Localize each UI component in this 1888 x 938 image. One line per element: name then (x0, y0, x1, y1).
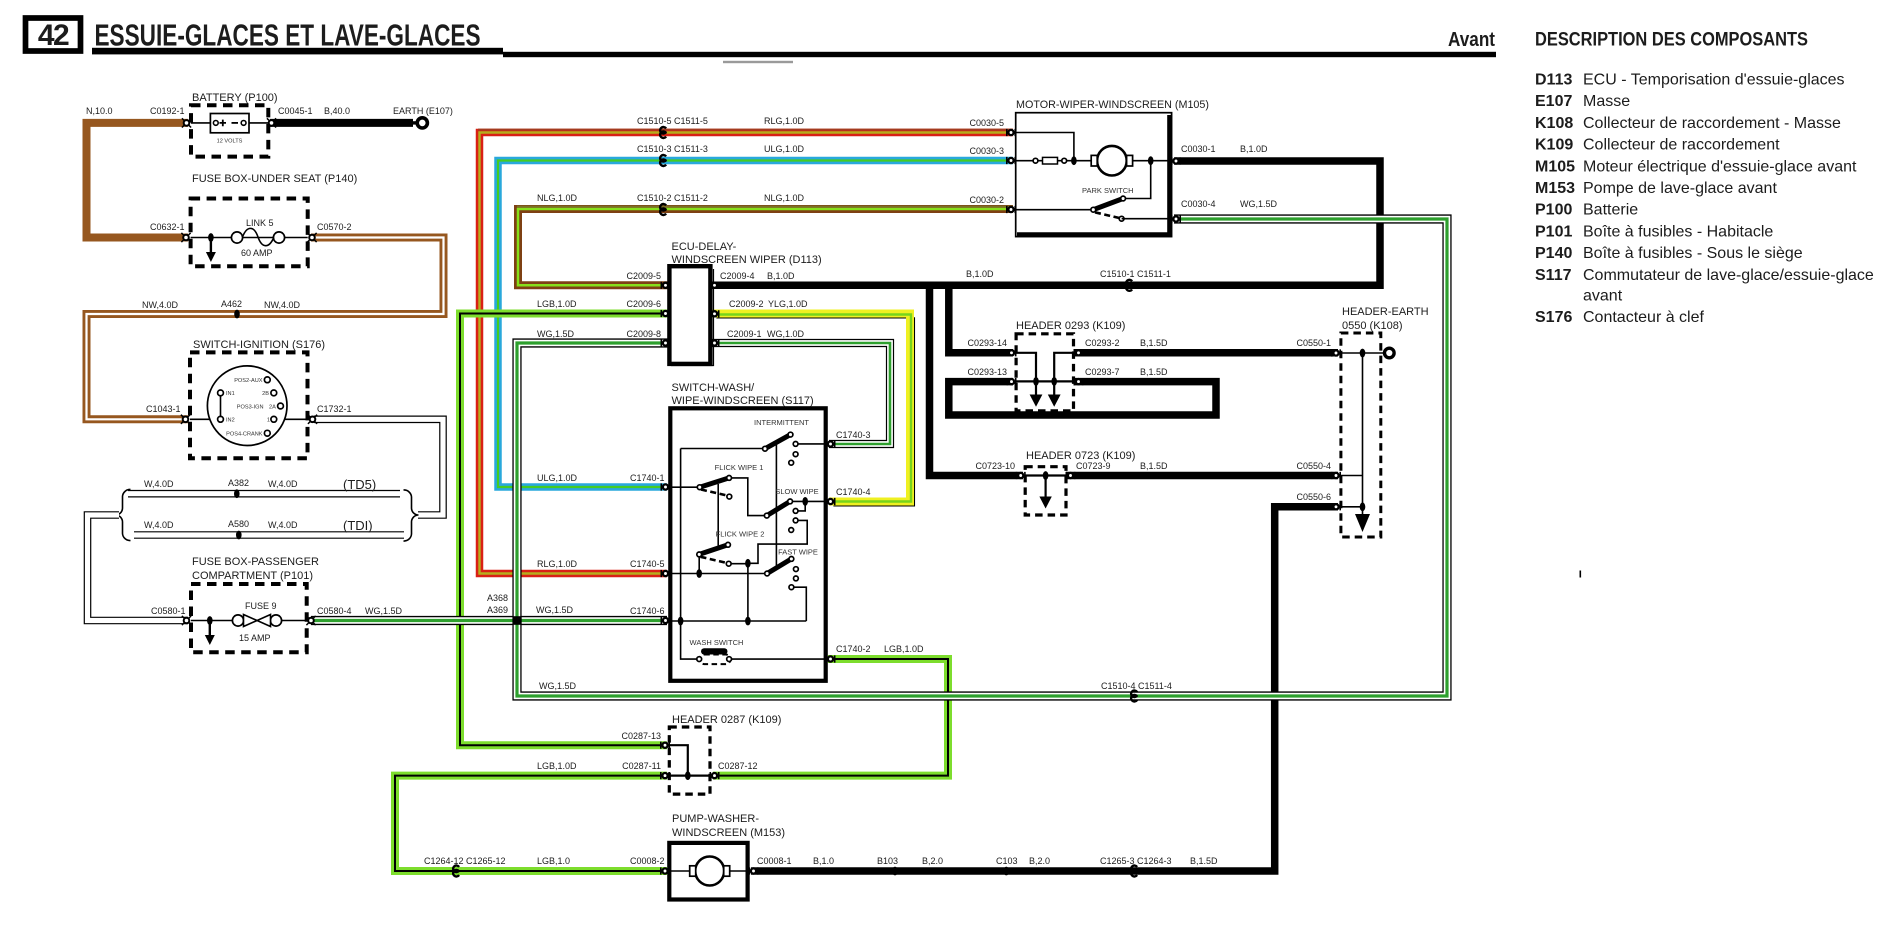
wire B,40.0 battery to earth (270, 119, 413, 127)
svg-text:P100: P100 (1535, 202, 1572, 219)
pin C2009-8 (661, 339, 669, 346)
svg-text:DESCRIPTION DES COMPOSANTS: DESCRIPTION DES COMPOSANTS (1535, 29, 1808, 51)
registration mark (1580, 571, 1582, 578)
pin C0293-2 (1074, 349, 1082, 356)
battery internal wire (191, 122, 270, 124)
svg-text:C1264-12 C1265-12: C1264-12 C1265-12 (424, 856, 506, 866)
svg-text:M105: M105 (1535, 158, 1575, 175)
svg-text:NW,4.0D: NW,4.0D (142, 300, 179, 310)
svg-text:avant: avant (1583, 288, 1623, 305)
intermittent switch lever (765, 435, 791, 449)
K108 big ground arrow (1355, 514, 1370, 532)
junction C103 (1004, 867, 1010, 876)
wire B branch to header 0723 (930, 285, 1024, 475)
svg-text:NLG,1.0D: NLG,1.0D (764, 193, 805, 203)
P140 ground arrow (206, 240, 216, 262)
header 0287 K109 box (669, 727, 710, 794)
svg-text:C0632-1: C0632-1 (150, 222, 185, 232)
S176 internal wire left (190, 418, 221, 420)
connector C1043-1 (181, 415, 190, 424)
svg-text:C2009-1: C2009-1 (727, 329, 762, 339)
svg-text:C1740-5: C1740-5 (630, 559, 665, 569)
svg-text:C0030-1: C0030-1 (1181, 144, 1216, 154)
wire B,1.5D header 0293 to header-earth C0550-1 (1074, 349, 1339, 357)
svg-text:WG,1.5D: WG,1.5D (365, 606, 403, 616)
terminal POS2-AUX (264, 377, 270, 383)
svg-text:FLICK WIPE 2: FLICK WIPE 2 (716, 530, 765, 539)
K108 internal vertical (1362, 353, 1364, 514)
pin C2009-4 (710, 282, 718, 289)
0723 internal wire (1025, 474, 1066, 476)
svg-text:0550 (K108): 0550 (K108) (1342, 320, 1403, 332)
wire LGB,1.0D ECU C2009-6 to header 0287 C0287-13 (460, 314, 669, 746)
svg-text:B,1.5D: B,1.5D (1140, 461, 1168, 471)
M153 motor circle (695, 857, 724, 886)
pin C0030-5 (1007, 129, 1015, 136)
svg-text:Batterie: Batterie (1583, 202, 1638, 219)
svg-text:Masse: Masse (1583, 93, 1630, 110)
pin C0030-3 (1007, 157, 1015, 164)
svg-text:EARTH (E107): EARTH (E107) (393, 106, 453, 116)
svg-text:2A: 2A (269, 404, 276, 410)
terminal 2A POS3-IGN (278, 403, 284, 409)
svg-text:K109: K109 (1535, 137, 1573, 154)
svg-text:12 VOLTS: 12 VOLTS (217, 139, 243, 145)
header 0293 K109 box (1016, 334, 1073, 411)
pin C1740-4 (826, 498, 834, 505)
battery plus terminal (213, 121, 218, 126)
wire B,1.5D header-earth C0550-6 to pump C0008-1 (751, 507, 1338, 871)
pin C1740-5 (661, 570, 669, 577)
PAGE-HEADER (26, 18, 1874, 578)
junction A580 (236, 531, 242, 540)
P101 junction dot (207, 616, 213, 625)
svg-text:LGB,1.0D: LGB,1.0D (884, 644, 924, 654)
svg-text:LGB,1.0: LGB,1.0 (537, 856, 570, 866)
connector pair C1510-1 C1511-1 (1126, 280, 1132, 291)
wire WG,1.5D fuse P101 to switch C1740-6 (311, 616, 667, 625)
pin C0030-4 (1172, 215, 1180, 222)
svg-text:ESSUIE-GLACES ET LAVE-GLACES: ESSUIE-GLACES ET LAVE-GLACES (95, 18, 481, 53)
svg-text:C1732-1: C1732-1 (317, 404, 352, 414)
svg-text:B,1.0: B,1.0 (813, 856, 834, 866)
connector pair C1510-5 C1511-5 (660, 127, 666, 138)
svg-text:Collecteur de raccordement - M: Collecteur de raccordement - Masse (1583, 115, 1841, 132)
pin C0008-1 (749, 867, 757, 874)
wire YLG,1.0D ECU C2009-2 to switch C1740-4 (716, 318, 914, 506)
S117 slow output wire (790, 500, 826, 502)
svg-text:15 AMP: 15 AMP (239, 633, 271, 643)
wire B,1.0D ECU C2009-4 to motor C0030-1 (712, 161, 1380, 285)
connector C0580-4 (306, 616, 315, 625)
P101 internal wire (191, 620, 307, 622)
pin C0293-14 (1007, 349, 1015, 356)
svg-text:LGB,1.0D: LGB,1.0D (537, 299, 577, 309)
slow wipe contacts (793, 509, 798, 514)
pin C2009-1 (710, 339, 718, 346)
connector pair C1265-3 C1264-3 (1131, 866, 1137, 877)
svg-text:C1510-4 C1511-4: C1510-4 C1511-4 (1101, 681, 1172, 691)
M105 wire park to C0030-4 (1122, 218, 1172, 220)
connector pair C1510-4 C1511-4 (1131, 691, 1137, 702)
svg-text:MOTOR-WIPER-WINDSCREEN (M105): MOTOR-WIPER-WINDSCREEN (M105) (1016, 99, 1209, 111)
svg-text:C0045-1: C0045-1 (278, 106, 313, 116)
wire ULG,1.0D motor to switch C1740-1 (498, 161, 1013, 488)
pin C0293-7 (1074, 378, 1082, 385)
svg-text:42: 42 (38, 19, 69, 52)
battery minus terminal (232, 122, 239, 124)
CENTER-COMPONENTS (537, 241, 924, 681)
svg-text:B,1.0D: B,1.0D (966, 269, 994, 279)
brace right (404, 490, 419, 541)
S117 link flick1 tip to slow pivot (729, 478, 767, 516)
svg-text:LINK 5: LINK 5 (246, 218, 274, 228)
svg-text:C0008-1: C0008-1 (757, 856, 792, 866)
svg-text:INTERMITTENT: INTERMITTENT (754, 418, 809, 427)
fast wipe lever (767, 559, 791, 574)
earth ring E107 (413, 121, 416, 124)
0287 internal wire top (669, 745, 688, 775)
S117 fast contact loop (791, 587, 806, 621)
svg-text:C0287-12: C0287-12 (718, 761, 758, 771)
svg-text:W,4.0D: W,4.0D (144, 520, 174, 530)
header rule (503, 52, 1496, 57)
0723 internal vertical (1044, 476, 1046, 497)
svg-text:WG,1.5D: WG,1.5D (537, 329, 575, 339)
svg-text:C2009-6: C2009-6 (626, 299, 661, 309)
wire W,4.0D TD5 (128, 490, 400, 498)
S117 left bus vertical (681, 449, 700, 660)
svg-text:B,1.0D: B,1.0D (1240, 144, 1268, 154)
svg-text:WG,1.5D: WG,1.5D (1240, 199, 1278, 209)
M105 wire C0030-2 to park pivot (1016, 209, 1094, 211)
S176 internal wire right (274, 418, 314, 420)
wire B,1.5D header 0723 to header-earth C0550-4 (1066, 472, 1338, 480)
svg-text:SWITCH-IGNITION (S176): SWITCH-IGNITION (S176) (193, 339, 325, 351)
header 0723 K109 box (1025, 467, 1066, 515)
svg-text:C0723-10: C0723-10 (975, 461, 1015, 471)
svg-text:C0293-7: C0293-7 (1085, 367, 1120, 377)
svg-text:C0580-1: C0580-1 (151, 606, 186, 616)
svg-text:C1740-6: C1740-6 (630, 606, 665, 616)
wire WG,1.5D branch to motor C0030-4 (517, 219, 1447, 696)
svg-text:P140: P140 (1535, 245, 1572, 262)
terminal 2B (271, 390, 277, 396)
pin C1740-6 (661, 617, 669, 624)
svg-text:Pompe de lave-glace avant: Pompe de lave-glace avant (1583, 180, 1777, 197)
fast wipe contacts (794, 567, 799, 572)
svg-text:C1740-2: C1740-2 (836, 644, 871, 654)
svg-text:HEADER-EARTH: HEADER-EARTH (1342, 306, 1429, 318)
svg-text:ULG,1.0D: ULG,1.0D (537, 473, 578, 483)
svg-text:FUSE BOX-UNDER SEAT (P140): FUSE BOX-UNDER SEAT (P140) (192, 173, 357, 185)
svg-text:HEADER 0287 (K109): HEADER 0287 (K109) (672, 714, 781, 726)
wire RLG,1.0D motor to switch C1740-5 (480, 133, 1014, 574)
svg-text:C2009-8: C2009-8 (626, 329, 661, 339)
svg-text:SLOW WIPE: SLOW WIPE (775, 487, 818, 496)
wire N,10.0 battery to fuse box (87, 123, 189, 238)
svg-text:C0287-11: C0287-11 (622, 761, 661, 771)
wire NW,4.0D fuse box to ignition switch (87, 238, 444, 420)
pin C0287-12 (710, 772, 718, 779)
svg-text:B,1.5D: B,1.5D (1140, 338, 1168, 348)
svg-text:A369: A369 (487, 605, 508, 615)
terminal IN2 (218, 416, 224, 422)
svg-text:WG,1.5D: WG,1.5D (536, 605, 574, 615)
battery P100 box (191, 105, 268, 156)
svg-text:M153: M153 (1535, 180, 1575, 197)
svg-text:LGB,1.0D: LGB,1.0D (537, 761, 577, 771)
fuse box P140 box (191, 199, 308, 267)
svg-text:ECU-DELAY-: ECU-DELAY- (672, 241, 737, 253)
svg-text:C1510-2 C1511-2: C1510-2 C1511-2 (637, 193, 708, 203)
S117 mechanical link center (775, 442, 777, 569)
svg-text:W,4.0D: W,4.0D (268, 520, 298, 530)
K108 wire C0550-1 to ring (1341, 352, 1384, 354)
wire W,4.0D TDI (134, 531, 404, 539)
wire WG,1.0D ECU C2009-1 to switch C1740-3 (712, 343, 890, 444)
flick wipe 2 lever (699, 545, 728, 555)
svg-text:S117: S117 (1535, 267, 1572, 284)
title underline thick segment (92, 48, 503, 55)
M153 internal wire (669, 870, 749, 872)
S117 flick2 pivot drop junction (698, 554, 700, 573)
svg-text:B,1.5D: B,1.5D (1140, 367, 1168, 377)
svg-text:1: 1 (267, 418, 270, 424)
component description list (1535, 72, 1874, 327)
connector C0192-1 (182, 118, 191, 127)
svg-text:ULG,1.0D: ULG,1.0D (764, 144, 805, 154)
ignition switch S176 box (190, 352, 308, 458)
svg-text:IN1: IN1 (226, 391, 235, 397)
flick wipe 1 lever (700, 478, 729, 487)
svg-text:NLG,1.0D: NLG,1.0D (537, 193, 578, 203)
svg-text:C0293-14: C0293-14 (967, 338, 1007, 348)
wire LGB,1.0D switch C1740-2 to header 0287 C0287-12 (713, 659, 948, 776)
M105 thermal fuse (1016, 160, 1092, 162)
pin C0550-1 (1332, 349, 1340, 356)
0293 internal bottom wire (1016, 380, 1073, 382)
pin C1740-2 (826, 655, 834, 662)
S117 bottom bus (670, 620, 806, 622)
M105 park feed wire (1123, 161, 1151, 199)
svg-text:FUSE BOX-PASSENGER: FUSE BOX-PASSENGER (192, 556, 319, 568)
P140 internal wire (191, 237, 308, 239)
svg-text:W,4.0D: W,4.0D (144, 479, 174, 489)
svg-text:C2009-4: C2009-4 (720, 271, 755, 281)
svg-text:FLICK WIPE 1: FLICK WIPE 1 (715, 463, 764, 472)
intermittent contacts (793, 442, 798, 447)
svg-text:POS4-CRANK: POS4-CRANK (226, 432, 263, 438)
connector C0570-2 (307, 233, 316, 242)
svg-text:C0030-5: C0030-5 (969, 118, 1004, 128)
terminal IN1 (218, 390, 224, 396)
connector pair C1510-2 C1511-2 (660, 204, 666, 215)
junction A368 A369 (513, 616, 522, 625)
svg-text:C1510-5 C1511-5: C1510-5 C1511-5 (637, 116, 708, 126)
svg-text:RLG,1.0D: RLG,1.0D (764, 116, 805, 126)
svg-text:PARK SWITCH: PARK SWITCH (1082, 186, 1134, 195)
svg-text:Avant: Avant (1448, 29, 1495, 51)
svg-text:POS2-AUX: POS2-AUX (234, 378, 263, 384)
small gray rule (723, 61, 793, 63)
svg-text:A368: A368 (487, 593, 508, 603)
svg-text:A382: A382 (228, 478, 249, 488)
svg-text:C0008-2: C0008-2 (630, 856, 665, 866)
pin C0550-6 (1332, 503, 1340, 510)
S176 link IN1-IN2 (220, 393, 222, 419)
svg-text:2B: 2B (262, 391, 269, 397)
svg-text:C0550-1: C0550-1 (1296, 338, 1331, 348)
svg-text:B,40.0: B,40.0 (324, 106, 350, 116)
fuse 9 symbol (232, 615, 243, 626)
svg-text:Boîte à fusibles - Sous le siè: Boîte à fusibles - Sous le siège (1583, 245, 1803, 262)
wire W braces to fuse box P101 (88, 515, 189, 621)
pin C0030-2 (1007, 206, 1015, 213)
S117 mechanical link flick1-flick2 (717, 484, 719, 546)
svg-text:C103: C103 (996, 856, 1018, 866)
svg-text:WG,1.0D: WG,1.0D (767, 329, 805, 339)
S117 flick2 dashed tip wire (729, 563, 748, 565)
svg-text:NW,4.0D: NW,4.0D (264, 300, 301, 310)
svg-text:W,4.0D: W,4.0D (268, 479, 298, 489)
svg-text:C2009-5: C2009-5 (626, 271, 661, 281)
connector pair C1510-3 C1511-3 (660, 155, 666, 166)
svg-text:Commutateur de lave-glace/essu: Commutateur de lave-glace/essuie-glace (1583, 267, 1874, 284)
connector C1732-1 (308, 415, 317, 424)
M105 wire motor to C0030-1 (1133, 160, 1172, 162)
connector C0580-1 (182, 616, 191, 625)
pin C0287-11 (661, 772, 669, 779)
pin C1740-3 (826, 440, 834, 447)
svg-text:E107: E107 (1535, 93, 1572, 110)
svg-text:C1265-3 C1264-3: C1265-3 C1264-3 (1100, 856, 1172, 866)
svg-text:A462: A462 (221, 299, 242, 309)
svg-text:D113: D113 (1535, 72, 1572, 89)
pump M153 box (669, 843, 747, 900)
pin C0287-13 (661, 742, 669, 749)
svg-text:C0580-4: C0580-4 (317, 606, 352, 616)
wire B,1.5D loop C0293-13 to C0293-7 (949, 382, 1216, 415)
0293 internal wire C0293-2 (1054, 353, 1073, 395)
wire NLG,1.0D motor to ECU C2009-5 (518, 209, 1013, 285)
svg-text:P101: P101 (1535, 223, 1572, 240)
svg-text:RLG,1.0D: RLG,1.0D (537, 559, 578, 569)
0723 ground arrow (1039, 497, 1051, 509)
svg-text:C0550-4: C0550-4 (1296, 461, 1331, 471)
svg-text:C0293-13: C0293-13 (967, 367, 1007, 377)
brace left (116, 489, 131, 540)
svg-text:IN2: IN2 (226, 418, 235, 424)
S117 top horizontal to intermittent pivot (681, 448, 765, 450)
0293 ground arrow 2 (1048, 395, 1061, 407)
svg-text:B,1.0D: B,1.0D (767, 271, 795, 281)
svg-text:C1740-4: C1740-4 (836, 487, 871, 497)
K108 wire C0550-4 (1341, 475, 1363, 477)
svg-text:C0030-2: C0030-2 (969, 195, 1004, 205)
svg-text:BATTERY (P100): BATTERY (P100) (192, 92, 278, 104)
svg-text:B,2.0: B,2.0 (1029, 856, 1050, 866)
pin C2009-5 (661, 282, 669, 289)
svg-text:C1043-1: C1043-1 (146, 404, 181, 414)
K108 wire C0550-6 (1341, 506, 1363, 508)
svg-text:WASH SWITCH: WASH SWITCH (690, 638, 744, 647)
svg-text:ECU - Temporisation d'essuie-g: ECU - Temporisation d'essuie-glaces (1583, 72, 1845, 89)
P101 ground arrow (205, 623, 215, 645)
svg-text:C1510-3 C1511-3: C1510-3 C1511-3 (637, 144, 708, 154)
op-amp U1 ECU D113 box (669, 266, 710, 364)
svg-text:A580: A580 (228, 519, 249, 529)
0287 internal wire bottom (669, 774, 710, 776)
svg-text:WG,1.5D: WG,1.5D (539, 681, 577, 691)
svg-text:S176: S176 (1535, 309, 1572, 326)
svg-text:Boîte à fusibles - Habitacle: Boîte à fusibles - Habitacle (1583, 223, 1773, 240)
svg-text:C1740-3: C1740-3 (836, 430, 871, 440)
svg-text:YLG,1.0D: YLG,1.0D (768, 299, 808, 309)
svg-text:POS3-IGN: POS3-IGN (237, 404, 264, 410)
svg-text:PUMP-WASHER-: PUMP-WASHER- (672, 813, 759, 825)
svg-text:C1740-1: C1740-1 (630, 473, 665, 483)
connector C0045-1 (267, 118, 276, 127)
S117 wash switch wire (729, 658, 826, 660)
M105 motor armature circle (1097, 146, 1127, 176)
slow wipe lever (767, 501, 790, 515)
svg-text:C0287-13: C0287-13 (621, 731, 661, 741)
svg-text:SWITCH-WASH/: SWITCH-WASH/ (672, 382, 756, 394)
svg-text:60 AMP: 60 AMP (241, 248, 273, 258)
pin C0550-4 (1332, 472, 1340, 479)
wire LGB,1.0 header 0287 C0287-11 to pump C0008-2 (395, 776, 667, 871)
RIGHT-COMPONENTS (424, 99, 1429, 900)
svg-text:Collecteur de raccordement: Collecteur de raccordement (1583, 137, 1780, 154)
svg-text:B,2.0: B,2.0 (922, 856, 943, 866)
junction B103 (892, 867, 898, 876)
svg-text:C1510-1 C1511-1: C1510-1 C1511-1 (1100, 269, 1171, 279)
svg-text:B,1.5D: B,1.5D (1190, 856, 1218, 866)
pin C2009-2 (710, 310, 718, 317)
LEFT-COMPONENTS (146, 92, 574, 652)
svg-text:Moteur électrique d'essuie-gla: Moteur électrique d'essuie-glace avant (1583, 158, 1857, 175)
pin C0008-2 (661, 867, 669, 874)
S176 rotor circle (207, 366, 287, 446)
svg-text:K108: K108 (1535, 115, 1573, 132)
S117 wire C1740-1 to flick pivot (670, 486, 700, 488)
svg-text:C0293-2: C0293-2 (1085, 338, 1120, 348)
svg-text:COMPARTMENT (P101): COMPARTMENT (P101) (192, 570, 313, 582)
M105 wire C0030-5 branch (1016, 133, 1074, 161)
S117 wire RLG row to fast pivot (670, 573, 767, 575)
0293 internal wire C0293-14 to ground (1016, 353, 1036, 395)
fuse box P101 box (191, 584, 307, 652)
wire B branch to header 0293 (949, 285, 1013, 353)
svg-text:C0550-6: C0550-6 (1296, 492, 1331, 502)
P140 junction dot (208, 233, 214, 242)
svg-text:C0030-4: C0030-4 (1181, 199, 1216, 209)
S117 intermittent output wire (796, 443, 826, 445)
connector C0632-1 (181, 233, 190, 242)
wire W ignition to braces (314, 419, 443, 515)
junction A462 (234, 310, 240, 319)
svg-text:FUSE 9: FUSE 9 (245, 601, 277, 611)
pin C2009-6 (661, 310, 669, 317)
pin C1740-1 (661, 483, 669, 490)
page number box 42 (26, 18, 81, 51)
svg-text:C0030-3: C0030-3 (969, 146, 1004, 156)
terminal POS4-CRANK (264, 430, 270, 436)
junction A382 (234, 489, 240, 498)
svg-text:(TD5): (TD5) (343, 477, 376, 492)
svg-text:HEADER 0293 (K109): HEADER 0293 (K109) (1016, 320, 1125, 332)
